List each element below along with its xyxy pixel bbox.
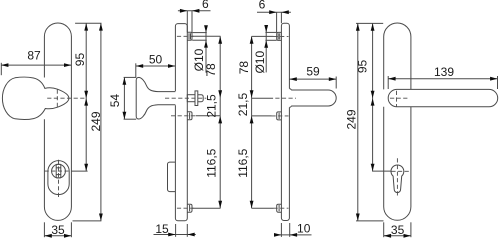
svg-text:10: 10 — [297, 222, 311, 236]
svg-text:21,5: 21,5 — [236, 92, 250, 116]
svg-text:249: 249 — [89, 111, 103, 131]
svg-text:116,5: 116,5 — [204, 148, 218, 177]
svg-text:15: 15 — [155, 222, 169, 236]
svg-text:54: 54 — [108, 94, 122, 108]
svg-text:21,5: 21,5 — [205, 94, 219, 118]
svg-text:50: 50 — [149, 52, 163, 66]
svg-text:35: 35 — [51, 223, 65, 237]
svg-text:249: 249 — [345, 109, 359, 129]
svg-text:78: 78 — [237, 61, 251, 75]
svg-text:6: 6 — [202, 0, 209, 11]
svg-text:6: 6 — [259, 0, 266, 11]
svg-text:95: 95 — [355, 60, 369, 74]
svg-text:116,5: 116,5 — [236, 148, 250, 177]
svg-text:35: 35 — [391, 223, 405, 237]
svg-text:78: 78 — [204, 63, 218, 77]
svg-text:Ø10: Ø10 — [253, 51, 267, 74]
svg-text:87: 87 — [27, 48, 41, 62]
svg-text:139: 139 — [434, 65, 454, 79]
svg-text:59: 59 — [306, 64, 320, 78]
svg-text:95: 95 — [73, 53, 87, 67]
